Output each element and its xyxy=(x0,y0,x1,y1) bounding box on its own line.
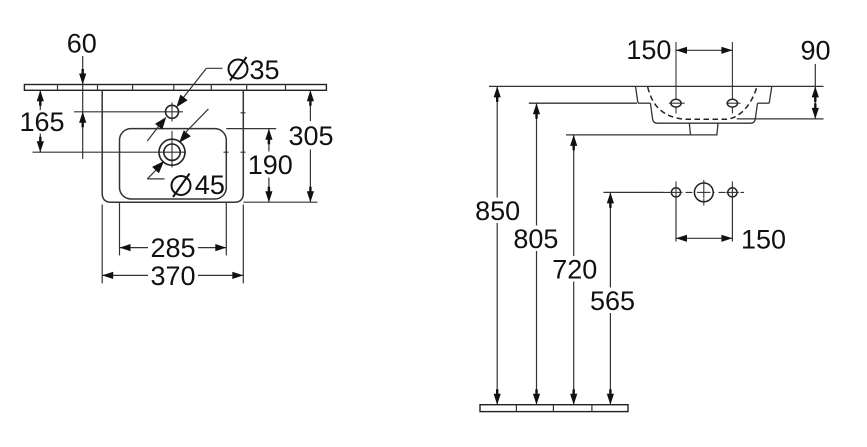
supply hole center xyxy=(694,183,713,202)
extension lines fixing holes (150 bottom) xyxy=(676,199,732,242)
basin outer outline (top view) xyxy=(102,90,243,202)
drain center lines xyxy=(33,113,246,168)
dimension 190 xyxy=(248,129,293,202)
dimension 565 xyxy=(590,192,635,404)
svg-text:90: 90 xyxy=(800,36,830,66)
dimension 305 xyxy=(288,90,333,202)
svg-text:565: 565 xyxy=(590,286,635,316)
dimension 285 xyxy=(120,233,227,263)
extension line fixing holes (565) xyxy=(604,191,664,193)
bowl curve dashed (side view) xyxy=(648,87,757,119)
mounting hole right xyxy=(727,99,737,107)
fixing hole left xyxy=(671,188,680,197)
basin upper body (side view) xyxy=(636,86,772,103)
svg-text:370: 370 xyxy=(150,261,195,291)
extension line basin underside (805) xyxy=(529,102,637,104)
faucet hole xyxy=(166,105,179,118)
label Ø45 with leader xyxy=(147,166,225,201)
extension line drain stub bottom (720) xyxy=(566,134,690,136)
extension line basin bottom (190/305) xyxy=(243,201,317,203)
drain stub (side view) xyxy=(689,123,718,135)
dimension 850 xyxy=(475,86,520,404)
svg-text:850: 850 xyxy=(475,196,520,226)
wall band joints xyxy=(58,85,286,91)
dimension 150 bottom xyxy=(676,225,786,255)
dimension 720 xyxy=(552,135,597,405)
mounting hole center lines xyxy=(676,42,732,114)
drain hole inner xyxy=(164,144,180,160)
drain hole outer xyxy=(159,139,185,165)
dimension 370 xyxy=(102,261,243,291)
basin bowl (top view) xyxy=(120,129,227,199)
svg-text:150: 150 xyxy=(626,35,671,65)
svg-text:165: 165 xyxy=(19,107,64,137)
svg-text:805: 805 xyxy=(513,224,558,254)
fixing hole right xyxy=(728,188,737,197)
dimension 150 top xyxy=(626,35,732,65)
center line through fixing holes xyxy=(664,191,745,193)
fixing holes cross ticks xyxy=(670,180,740,206)
svg-text:150: 150 xyxy=(741,225,786,255)
dimension 60 xyxy=(67,29,97,160)
mounting hole cross ticks xyxy=(669,102,741,104)
svg-text:190: 190 xyxy=(248,150,293,180)
Ø45 diameter arrows xyxy=(152,109,208,173)
floor band xyxy=(480,405,628,412)
dimension 165 xyxy=(19,90,64,152)
svg-text:35: 35 xyxy=(250,55,280,85)
mounting hole left xyxy=(671,99,681,107)
basin lower body (side view) xyxy=(650,103,757,123)
wall/top line (side view) xyxy=(489,85,824,87)
faucet hole center lines xyxy=(74,103,183,122)
svg-text:45: 45 xyxy=(195,170,225,200)
extension lines bowl sides (285) xyxy=(119,203,121,256)
Ø35 diameter arrows xyxy=(147,95,187,141)
svg-text:285: 285 xyxy=(150,233,195,263)
extension line bowl top (190) xyxy=(226,128,276,130)
extension line bowl bottom (90) xyxy=(737,118,824,120)
svg-text:720: 720 xyxy=(552,255,597,285)
svg-text:305: 305 xyxy=(288,121,333,151)
dimension 805 xyxy=(513,103,558,405)
floor band joints xyxy=(516,405,592,412)
dimension 90 xyxy=(800,36,830,119)
svg-text:60: 60 xyxy=(67,29,97,59)
extension lines basin sides (370) xyxy=(101,205,103,284)
wall band (top view) xyxy=(24,85,326,91)
label Ø35 with leader xyxy=(179,55,280,104)
